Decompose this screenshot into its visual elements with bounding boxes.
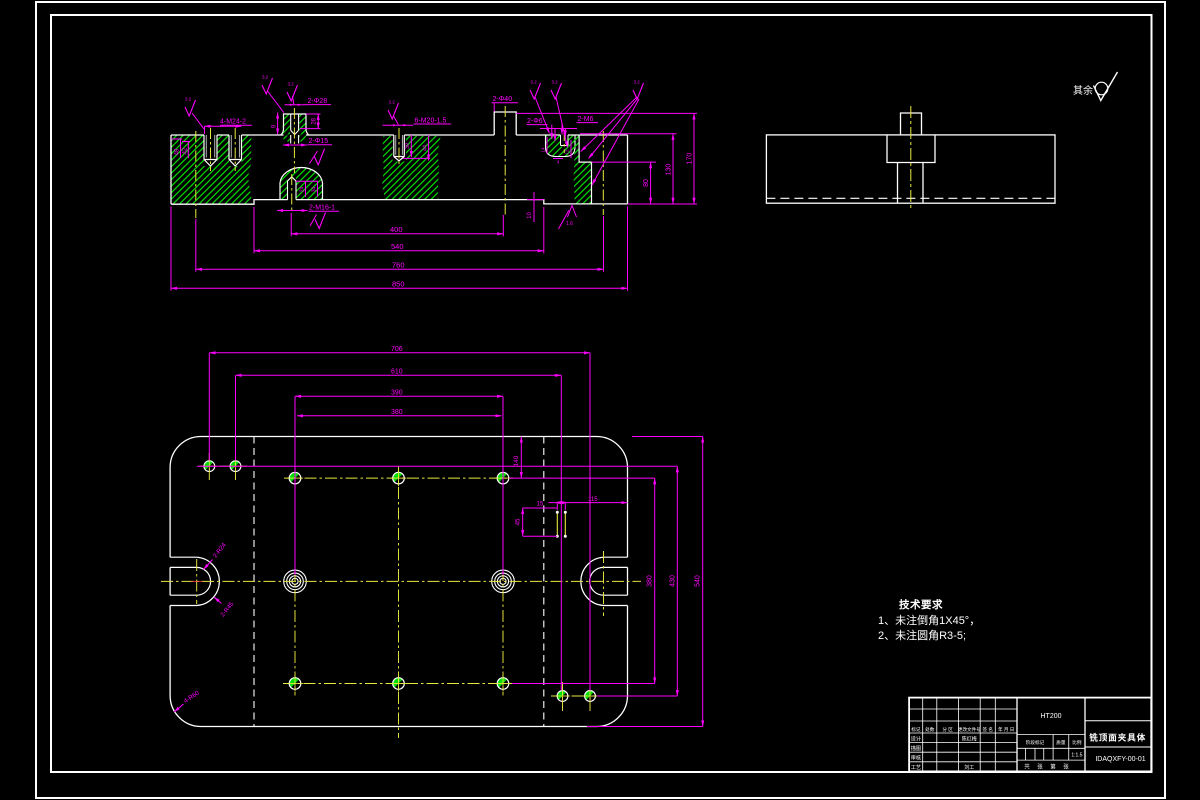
svg-text:2-Φ6: 2-Φ6 bbox=[527, 118, 543, 125]
front view: body right edge bbox=[627, 135, 629, 204]
front view: phi28 boss hatch right strip bbox=[299, 115, 308, 135]
svg-text:610: 610 bbox=[391, 368, 403, 375]
plan view: right edge island segments bbox=[170, 567, 627, 595]
side view vertical centerline bbox=[910, 106, 912, 210]
svg-text:24: 24 bbox=[299, 187, 305, 193]
front view: M20 tapped hole outline bbox=[394, 135, 405, 161]
svg-text:技术要求: 技术要求 bbox=[899, 598, 943, 611]
leader drops from hole labels bbox=[540, 128, 577, 130]
svg-text:2-Φ15: 2-Φ15 bbox=[309, 138, 329, 145]
svg-text:80: 80 bbox=[643, 179, 650, 187]
svg-text:3.2: 3.2 bbox=[389, 100, 396, 105]
leader 2-R24 bbox=[204, 560, 213, 570]
front view: M16 dome boss hatched bbox=[280, 168, 323, 200]
plan centerline col 3 bbox=[502, 467, 504, 696]
small dim line under M20 bbox=[403, 157, 430, 159]
front view: left hatched block section bbox=[171, 135, 252, 204]
front view: tapped hole M24 #2 black core bbox=[229, 135, 242, 166]
plan view: left slot inner island R24 bbox=[170, 567, 210, 595]
dim 28 right of boss bbox=[317, 114, 319, 129]
front view: phi28 boss hatch left strip bbox=[282, 115, 291, 135]
dim line 2-phi15 bbox=[283, 144, 307, 146]
label underline 2-phi28 bbox=[307, 104, 331, 106]
svg-text:4-M24-2: 4-M24-2 bbox=[220, 119, 246, 126]
svg-text:3.2: 3.2 bbox=[552, 80, 559, 85]
dim 400 bbox=[291, 233, 503, 235]
svg-text:115: 115 bbox=[588, 497, 598, 503]
svg-text:44: 44 bbox=[423, 145, 429, 151]
svg-text:400: 400 bbox=[390, 225, 403, 234]
plan view: left slot outer boundary R45 bbox=[170, 557, 219, 605]
leader 2-R45 bbox=[214, 597, 222, 604]
dim line 6-M20-1.5 leader bbox=[383, 124, 414, 126]
svg-text:34: 34 bbox=[311, 187, 317, 193]
svg-text:390: 390 bbox=[391, 389, 403, 396]
dim 390 bbox=[295, 395, 503, 397]
label underline 2-phi6 bbox=[527, 124, 548, 126]
svg-text:审核: 审核 bbox=[911, 754, 921, 762]
surface check above phi28 hole bbox=[287, 85, 298, 101]
svg-text:1:1.5: 1:1.5 bbox=[1071, 753, 1082, 759]
front view: tapped hole M24 #1 black core bbox=[204, 135, 217, 166]
front view: middle hatched island bbox=[382, 136, 440, 200]
svg-text:130: 130 bbox=[666, 164, 673, 176]
svg-text:170: 170 bbox=[687, 153, 694, 165]
label underline 2-phi15 bbox=[308, 144, 333, 146]
svg-text:标记: 标记 bbox=[911, 726, 921, 733]
extension horizontals to right dims bbox=[197, 465, 677, 467]
side view lower channel left line bbox=[897, 163, 899, 204]
svg-text:15: 15 bbox=[537, 501, 544, 507]
dim 80 bbox=[650, 162, 652, 204]
plan centerline col 2 bbox=[398, 467, 400, 739]
svg-text:分 区: 分 区 bbox=[942, 726, 953, 733]
front view: phi6 pocket outline bbox=[546, 135, 576, 157]
label underline 2-M6 bbox=[577, 122, 599, 124]
svg-text:6-M20-1.5: 6-M20-1.5 bbox=[415, 117, 447, 124]
svg-text:比例: 比例 bbox=[1072, 739, 1082, 746]
dim 706 bbox=[209, 352, 590, 354]
middle grid lines bbox=[1017, 735, 1085, 761]
svg-text:45: 45 bbox=[516, 518, 522, 525]
dim 42 left bbox=[187, 142, 189, 159]
left grid verticals bbox=[923, 698, 996, 772]
dim 44 bbox=[428, 135, 430, 161]
slot centerlines bbox=[196, 559, 198, 604]
front view: centerline left bbox=[195, 131, 197, 218]
dim 39 bbox=[410, 135, 412, 157]
svg-text:3.2: 3.2 bbox=[185, 97, 192, 102]
front view: phi15 hatch strips under boss bbox=[284, 136, 307, 142]
plan view: right slot inner island R24 bbox=[590, 567, 628, 595]
svg-text:3.2: 3.2 bbox=[634, 80, 641, 85]
front view: phi28 boss outline with base fillets bbox=[281, 114, 309, 135]
leader 4-R60 bbox=[174, 704, 184, 712]
svg-text:铣顶面夹具体: 铣顶面夹具体 bbox=[1089, 732, 1146, 742]
svg-text:陈红梅: 陈红梅 bbox=[962, 735, 977, 742]
front view: centerline M16 dome hole bbox=[291, 174, 293, 211]
plan centerline col 1 bbox=[294, 467, 296, 696]
plan centerline row 3 bbox=[283, 683, 513, 685]
grid bolt holes bbox=[287, 470, 303, 486]
front view: centerline M24 hole 2 bbox=[234, 128, 236, 171]
plan view: big counterbore left rings bbox=[284, 570, 307, 593]
dim 140 bbox=[520, 437, 522, 479]
svg-text:380: 380 bbox=[391, 409, 403, 416]
svg-text:更改文件号: 更改文件号 bbox=[958, 726, 981, 733]
front view: centerline M24 hole 1 bbox=[210, 128, 212, 171]
surface check left of phi28 boss bbox=[262, 78, 273, 94]
dim 380 right bbox=[654, 478, 656, 683]
dim 610 bbox=[236, 374, 562, 376]
svg-text:140: 140 bbox=[513, 455, 520, 466]
front view: centerline phi28 boss bbox=[293, 108, 295, 173]
front view: body left edge bbox=[170, 135, 172, 204]
front view: phi15 hole through boss bbox=[291, 114, 299, 135]
front view: centerline right feature bbox=[602, 131, 604, 215]
front view: phi15 hole below top face bbox=[291, 135, 299, 144]
dim line 2-M16-1 bbox=[277, 210, 308, 212]
svg-text:阶段标记: 阶段标记 bbox=[1026, 739, 1045, 746]
left grid horizontals bbox=[909, 709, 1017, 762]
title block main vertical dividers bbox=[1017, 698, 1085, 772]
front view: M6 small hole outline bbox=[561, 135, 569, 146]
svg-text:12: 12 bbox=[565, 149, 570, 155]
mini feature dims 15 115 45 bbox=[549, 502, 555, 504]
extension line at top face level bbox=[580, 133, 677, 135]
side view counterbore pocket rectangle bbox=[887, 135, 935, 163]
dim 48 left bbox=[180, 139, 182, 158]
extension line at boss top level bbox=[516, 112, 697, 114]
pair hole centerlines top-left bbox=[208, 453, 210, 480]
svg-text:刘工: 刘工 bbox=[964, 764, 974, 771]
front view: M20 hole black core bbox=[393, 135, 407, 162]
dim 760 bbox=[196, 268, 604, 270]
svg-text:48: 48 bbox=[175, 148, 181, 155]
right column horizontals bbox=[1085, 721, 1151, 747]
dim 130 bbox=[672, 134, 674, 204]
svg-text:39: 39 bbox=[405, 143, 411, 149]
svg-text:2、未注圆角R3-5;: 2、未注圆角R3-5; bbox=[878, 628, 966, 642]
svg-text:3.2: 3.2 bbox=[262, 75, 269, 80]
plan centerline row 1 bbox=[284, 477, 513, 479]
dim 430 right bbox=[676, 466, 678, 696]
front view: internal step outline bbox=[579, 135, 591, 204]
svg-text:IDAQXFY-00-01: IDAQXFY-00-01 bbox=[1095, 756, 1145, 763]
svg-text:2-Φ40: 2-Φ40 bbox=[493, 96, 513, 103]
surface checks top right group bbox=[530, 83, 541, 99]
svg-text:HT200: HT200 bbox=[1040, 713, 1061, 720]
surface check above left block bbox=[185, 100, 196, 116]
bottom surface finish mark bbox=[568, 206, 577, 218]
front view: tapped hole M24 #1 outline bbox=[204, 135, 217, 166]
svg-text:3.2: 3.2 bbox=[288, 82, 295, 87]
front view: phi40 boss outline bbox=[494, 112, 516, 135]
svg-text:描图: 描图 bbox=[911, 744, 921, 752]
plan view: hidden recess line left bbox=[253, 437, 255, 727]
side view top boss bbox=[901, 113, 922, 135]
svg-text:2-Φ28: 2-Φ28 bbox=[308, 98, 328, 105]
dim 170 bbox=[693, 113, 695, 203]
svg-text:质量: 质量 bbox=[1056, 739, 1066, 746]
svg-text:540: 540 bbox=[695, 575, 702, 587]
svg-text:760: 760 bbox=[392, 260, 405, 269]
label underline 6-M20-1.5 bbox=[414, 123, 452, 125]
front view: body top edge segments bbox=[171, 134, 628, 136]
side view hidden bottom dashed line bbox=[766, 197, 1055, 199]
svg-text:380: 380 bbox=[647, 575, 654, 587]
front view: phi6 pocket hatched bbox=[546, 135, 576, 157]
label underline 4-M24-2 bbox=[220, 124, 252, 126]
svg-text:处数: 处数 bbox=[925, 726, 935, 733]
svg-text:其余: 其余 bbox=[1073, 84, 1093, 97]
label underline 2-phi40 bbox=[492, 102, 519, 104]
small cross at left slot center bbox=[191, 580, 203, 582]
dim line 4-M24-2 bbox=[205, 125, 242, 127]
svg-text:42: 42 bbox=[183, 147, 189, 154]
svg-text:3.2: 3.2 bbox=[531, 80, 538, 85]
title block outer box bbox=[909, 698, 1151, 772]
surface check below 2-phi15 bbox=[314, 149, 325, 165]
svg-text:共 张 第 张: 共 张 第 张 bbox=[1024, 763, 1072, 771]
svg-text:年 月 日: 年 月 日 bbox=[998, 726, 1014, 733]
front view: right hatched web bbox=[573, 135, 591, 204]
plan view: right slot outer boundary R45 bbox=[581, 557, 628, 605]
front view: bottom edge with recess step bbox=[171, 200, 628, 205]
extension line at step level bbox=[592, 161, 657, 163]
svg-text:1.6: 1.6 bbox=[566, 221, 573, 227]
surface roughness check symbol top right bbox=[1094, 72, 1118, 101]
svg-text:签 名: 签 名 bbox=[983, 726, 993, 733]
dim 850 bbox=[171, 287, 628, 289]
svg-text:14: 14 bbox=[541, 147, 546, 153]
side view body rectangle bbox=[766, 135, 1055, 203]
svg-text:工艺: 工艺 bbox=[911, 764, 921, 771]
dim 380 top bbox=[297, 415, 502, 417]
front view: centerline M20 hole bbox=[398, 128, 400, 166]
front view: centerline phi6 hole bbox=[563, 130, 565, 153]
front view: tapped hole M24 #2 outline bbox=[229, 135, 242, 166]
pair hole centerlines bottom-right bbox=[562, 682, 564, 711]
dim line 2-phi28 bbox=[285, 104, 308, 106]
svg-text:设计: 设计 bbox=[911, 734, 921, 742]
surface check above M20 hole bbox=[388, 103, 399, 119]
svg-text:430: 430 bbox=[669, 575, 676, 587]
front view: M16 tapped hole from below bbox=[288, 177, 297, 200]
dome interior small dims bbox=[296, 180, 319, 182]
svg-text:2-M6: 2-M6 bbox=[578, 116, 594, 123]
side view lower channel right line bbox=[922, 163, 924, 204]
mini keyway feature lines bbox=[557, 512, 565, 536]
plan view: big counterbore right rings bbox=[492, 570, 515, 593]
corner pair holes bbox=[202, 459, 217, 474]
front view: M16 dome hole black core bbox=[288, 177, 297, 200]
svg-text:10: 10 bbox=[527, 212, 533, 219]
surface check below 2-M16-1 bbox=[315, 213, 326, 229]
dim 10 bottom step bbox=[533, 192, 535, 222]
svg-text:28: 28 bbox=[312, 117, 318, 124]
svg-text:1、未注倒角1X45°，: 1、未注倒角1X45°， bbox=[878, 613, 980, 627]
front view: centerline phi40 boss bbox=[504, 106, 506, 215]
front view: phi6 hole black core bbox=[560, 135, 569, 147]
front view: M16 dome outline bbox=[280, 168, 323, 200]
dim 9 beside boss bbox=[277, 113, 279, 135]
svg-text:850: 850 bbox=[392, 279, 405, 288]
leader fan to stepped surfaces bbox=[581, 97, 637, 152]
svg-text:706: 706 bbox=[391, 346, 403, 353]
extension verticals above plan bbox=[208, 353, 210, 461]
plan centerline row 2 bbox=[161, 580, 641, 582]
plan view: hidden recess line right bbox=[543, 437, 545, 727]
dim 540 bbox=[254, 250, 544, 252]
svg-text:2-M16-1: 2-M16-1 bbox=[309, 205, 335, 212]
plan view: outer contour with corner fillets and side slot openings bbox=[170, 437, 627, 727]
extension line at bottom level bbox=[628, 203, 698, 205]
svg-text:540: 540 bbox=[391, 242, 404, 251]
small dims at phi6 pocket bbox=[546, 137, 548, 154]
label underline 2-M16-1 bbox=[309, 210, 340, 212]
dim 540 right bbox=[702, 437, 704, 727]
